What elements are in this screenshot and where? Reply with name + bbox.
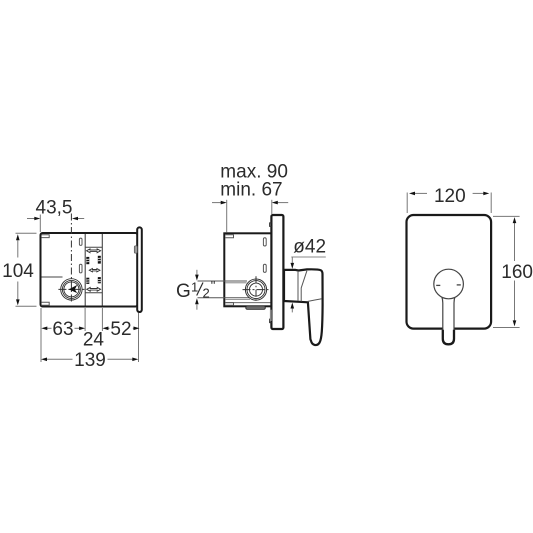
svg-text:min. 67: min. 67 (220, 180, 282, 201)
svg-text:": " (211, 278, 216, 293)
svg-text:139: 139 (74, 350, 106, 371)
svg-text:104: 104 (2, 261, 34, 282)
svg-text:ø42: ø42 (293, 237, 326, 258)
svg-text:24: 24 (83, 330, 105, 351)
svg-text:120: 120 (434, 186, 466, 207)
svg-text:1: 1 (191, 279, 198, 294)
svg-text:43,5: 43,5 (36, 198, 73, 219)
svg-text:2: 2 (203, 286, 210, 301)
svg-text:63: 63 (52, 319, 73, 340)
svg-text:160: 160 (501, 262, 533, 283)
svg-text:52: 52 (110, 319, 131, 340)
svg-text:G: G (176, 281, 191, 302)
